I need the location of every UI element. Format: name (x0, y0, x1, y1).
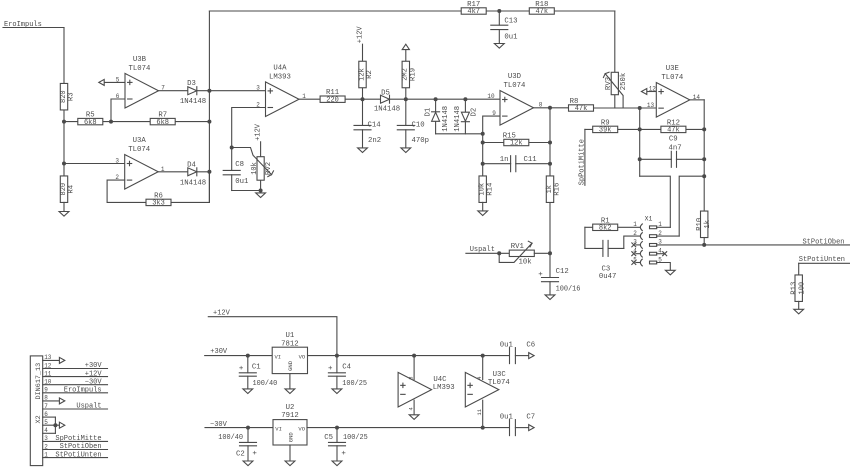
ground below C10 (401, 148, 411, 153)
svg-text:1n: 1n (500, 156, 509, 164)
svg-text:U3E: U3E (666, 65, 679, 73)
svg-text:U4A: U4A (273, 64, 287, 72)
X1 left contact row 2 (640, 233, 642, 240)
op-amp U4A (266, 82, 300, 117)
node R12 right junction (702, 127, 706, 131)
svg-text:0u1: 0u1 (504, 34, 518, 42)
op-amp U4C power (398, 372, 432, 407)
svg-text:1N4148: 1N4148 (454, 106, 462, 132)
svg-text:100/40: 100/40 (253, 380, 278, 388)
svg-text:C1: C1 (252, 363, 261, 371)
svg-text:47k: 47k (575, 105, 588, 113)
X2 pins 4-5-6 bracket (54, 417, 56, 433)
wire D1-D2 bottom (436, 133, 483, 135)
X1 pin 5 bar (650, 261, 657, 264)
U3C power pin 4 (482, 356, 484, 380)
svg-text:5: 5 (44, 419, 48, 426)
X2 pin 6 (43, 416, 56, 418)
ground below RV2 (260, 191, 262, 193)
svg-text:3k3: 3k3 (152, 200, 165, 208)
resistor R18 (529, 8, 554, 14)
svg-text:0u1: 0u1 (500, 413, 514, 421)
svg-text:StPotiOben: StPotiOben (60, 443, 102, 451)
svg-text:U3B: U3B (133, 56, 147, 64)
X2 pin 4 (43, 432, 56, 434)
svg-text:100/25: 100/25 (342, 380, 367, 388)
U3C pin 11 to -rail (482, 400, 484, 427)
node R10 bottom junction (702, 243, 706, 247)
svg-text:LM393: LM393 (433, 384, 455, 392)
X2 pin 2 (43, 449, 108, 451)
junction C11 right (548, 162, 552, 166)
resistor R12 (661, 126, 686, 132)
svg-text:47k: 47k (667, 127, 680, 135)
X1 pin 2 bar (650, 235, 657, 238)
resistor R13 (795, 275, 802, 302)
capacitor C9 (672, 157, 676, 162)
junction R15 right (548, 141, 552, 145)
RV2 wiper (232, 148, 272, 175)
wire U3B pin6 (111, 99, 125, 122)
X1 pin3 lead right / StPotiOben wire (657, 244, 850, 246)
capacitor C4 electrolytic (336, 356, 338, 373)
svg-text:EroImpuls: EroImpuls (64, 387, 102, 395)
svg-text:StPotiUnten: StPotiUnten (55, 451, 101, 459)
svg-text:1N4148: 1N4148 (180, 179, 206, 187)
svg-text:10k: 10k (519, 259, 533, 267)
svg-text:0u1: 0u1 (500, 341, 514, 349)
node D4 output junction (207, 170, 211, 174)
capacitor C10 (405, 99, 407, 125)
node D3 output junction (207, 89, 211, 93)
resistor R14 (479, 176, 486, 203)
ground below R13 (798, 301, 800, 309)
capacitor C3 (585, 247, 603, 249)
svg-text:7: 7 (44, 403, 48, 410)
svg-text:C12: C12 (556, 268, 569, 276)
node U3C power junction (481, 354, 485, 358)
svg-text:250k: 250k (620, 72, 628, 90)
wire output node to X1 pin2 (679, 176, 704, 236)
svg-text:3: 3 (115, 158, 119, 165)
svg-text:8k2: 8k2 (599, 225, 612, 233)
svg-text:+12V: +12V (356, 26, 364, 44)
svg-text:GND: GND (287, 360, 294, 371)
X2 pin 12 (43, 368, 108, 370)
X1 pin4 lead right with x (657, 253, 665, 255)
svg-text:C13: C13 (504, 17, 517, 25)
svg-text:C6: C6 (526, 341, 535, 349)
svg-text:VI: VI (275, 353, 282, 360)
U4C pin 4 to ground (413, 400, 415, 415)
RV1 wiper (499, 243, 532, 262)
ground below C14 (358, 148, 368, 153)
wire U4A output (299, 98, 500, 100)
svg-text:D3: D3 (187, 80, 196, 88)
op-amp U3A (125, 155, 159, 190)
svg-text:C7: C7 (526, 413, 535, 421)
svg-text:10k: 10k (479, 183, 487, 196)
svg-text:1k: 1k (704, 220, 712, 228)
ground below C4 (332, 389, 342, 394)
U1 ground pin (289, 374, 291, 389)
resistor R6 (146, 199, 171, 205)
resistor R3 (60, 83, 67, 110)
svg-text:StPotiUnten: StPotiUnten (799, 256, 845, 264)
node U3E pin13 junction (638, 106, 642, 110)
trimmer RV3 (614, 11, 616, 72)
svg-text:VO: VO (298, 426, 305, 433)
trimmer RV1 (509, 250, 534, 256)
svg-text:1N4148: 1N4148 (180, 98, 206, 106)
wire U3E pin12 stub (647, 91, 657, 93)
svg-text:SpPotiMitte: SpPotiMitte (55, 435, 101, 443)
node R9 right junction (638, 127, 642, 131)
svg-text:100/40: 100/40 (218, 434, 243, 442)
svg-text:+30V: +30V (85, 362, 103, 370)
diode D2 (464, 99, 466, 134)
U2 ground pin (289, 445, 291, 461)
svg-text:4k7: 4k7 (467, 8, 480, 16)
svg-text:U2: U2 (286, 404, 295, 412)
wire top line (209, 10, 614, 12)
trimmer RV2 (260, 142, 262, 157)
svg-text:10k: 10k (251, 162, 259, 175)
node X2 pin5 junction (53, 423, 57, 427)
ground below X1 pin5 (665, 270, 675, 275)
svg-text:6: 6 (44, 411, 48, 418)
node C2 junction (246, 426, 250, 430)
regulator U1 7812 (272, 347, 307, 373)
svg-text:C8: C8 (235, 161, 244, 169)
node R19/C10 junction (404, 97, 408, 101)
X2 pin 7 (43, 408, 108, 410)
svg-text:SpPotiMitte: SpPotiMitte (578, 139, 586, 185)
capacitor C2 electrolytic (247, 428, 249, 443)
svg-text:100: 100 (798, 282, 806, 295)
X2 pin 11 (43, 376, 108, 378)
svg-text:820: 820 (60, 90, 68, 103)
svg-text:8: 8 (44, 395, 48, 402)
node C9 left junction (638, 157, 642, 161)
arrow at U3B pin5 (99, 79, 104, 85)
X2 pin 13 (43, 359, 59, 361)
svg-text:+: + (252, 450, 257, 458)
X1 left contact row 1 (640, 224, 642, 231)
svg-text:10: 10 (44, 379, 52, 386)
wire R15 net (483, 142, 550, 144)
ground below C1 (243, 389, 253, 394)
X2 pin 3 (43, 440, 108, 442)
node RV2 ground junction (259, 189, 263, 193)
resistor R7 (150, 118, 175, 124)
svg-text:12: 12 (649, 86, 657, 93)
X1 pin5 lead right to ground (657, 263, 671, 271)
svg-text:R2: R2 (366, 70, 374, 79)
arrow at C7 (529, 425, 534, 431)
svg-text:2: 2 (256, 102, 260, 109)
resistor R16 (546, 176, 553, 203)
svg-text:X2: X2 (35, 415, 43, 423)
wire U4A pin3 (209, 90, 265, 92)
node U3D output junction (548, 106, 552, 110)
svg-text:9: 9 (492, 110, 496, 117)
svg-text:5: 5 (116, 76, 120, 83)
svg-text:C5: C5 (324, 434, 333, 442)
node RV1 right junction (548, 251, 552, 255)
svg-text:TL074: TL074 (128, 146, 151, 154)
node junction R3/R5 (62, 120, 66, 124)
svg-text:R16: R16 (554, 183, 562, 196)
svg-text:U4C: U4C (433, 376, 447, 384)
node output-R10 junction (702, 174, 706, 178)
svg-text:2: 2 (44, 443, 48, 450)
wire StPotiUnten vertical (798, 263, 800, 275)
svg-text:R19: R19 (409, 68, 417, 81)
wire U3B output (159, 90, 210, 92)
X1 pin 1 bar (650, 226, 657, 229)
svg-text:LM393: LM393 (269, 73, 291, 81)
wire C6 output stub (515, 355, 528, 357)
svg-text:U3D: U3D (508, 73, 522, 81)
diode D4 (188, 168, 197, 176)
ground below C12 (545, 295, 555, 300)
wire vertical main left bus (208, 11, 210, 202)
junction R15 left (481, 141, 485, 145)
X1 pin2 lead right (657, 235, 680, 237)
svg-text:4: 4 (44, 427, 48, 434)
capacitor C1 electrolytic (247, 356, 249, 373)
svg-text:12k: 12k (510, 140, 523, 148)
svg-text:8: 8 (408, 376, 415, 379)
resistor R19 (405, 50, 407, 99)
svg-text:X1: X1 (645, 215, 653, 222)
svg-text:1N4148: 1N4148 (442, 106, 450, 132)
svg-text:820: 820 (60, 183, 68, 196)
svg-text:220: 220 (326, 96, 339, 104)
wire -30V input (205, 427, 273, 429)
svg-text:+: + (328, 365, 333, 373)
svg-text:Uspalt: Uspalt (470, 246, 495, 254)
wire R8 net (568, 107, 656, 109)
svg-text:D2: D2 (471, 108, 479, 117)
svg-text:2: 2 (633, 230, 637, 237)
node C13 junction (497, 9, 501, 13)
node C9 right junction (702, 157, 706, 161)
wire R10 bottom (703, 238, 705, 245)
svg-text:100/16: 100/16 (556, 286, 581, 294)
svg-text:C11: C11 (524, 156, 538, 164)
svg-text:3: 3 (44, 435, 48, 442)
node D2 bottom junction (481, 132, 485, 136)
svg-text:U3A: U3A (133, 137, 147, 145)
X1 pin1 lead right (657, 226, 671, 228)
X2 pin 5 (43, 424, 59, 426)
resistor R1 (585, 226, 640, 228)
ground below U2 (285, 461, 295, 466)
X1 pin 3 bar (650, 244, 657, 247)
X2 pin 8 (43, 400, 59, 402)
svg-text:−30V: −30V (85, 378, 103, 386)
node U3C pin11 junction (481, 426, 485, 430)
ground below U1 (285, 389, 295, 394)
svg-text:470p: 470p (412, 137, 430, 145)
svg-text:R4: R4 (68, 184, 76, 193)
junction C11 left (481, 162, 485, 166)
wire U4A pin2 (232, 108, 266, 148)
svg-text:+12V: +12V (85, 370, 103, 378)
resistor R5 (78, 118, 103, 124)
wire pin13 node vertical (639, 108, 641, 176)
wire C9 net (640, 158, 705, 160)
wire U3E feedback vertical (703, 100, 705, 211)
svg-text:Uspalt: Uspalt (76, 403, 101, 411)
ground below C2 (243, 461, 253, 466)
svg-text:U3C: U3C (493, 371, 507, 379)
svg-text:12k: 12k (358, 68, 366, 81)
X1 left contact row 4 (640, 250, 642, 257)
svg-text:C4: C4 (342, 363, 351, 371)
svg-text:0u47: 0u47 (599, 273, 617, 281)
svg-text:1k: 1k (546, 185, 554, 193)
wire +30V input (205, 355, 273, 357)
svg-text:1: 1 (44, 451, 48, 458)
capacitor C13 (498, 11, 500, 25)
node C4 junction (335, 354, 339, 358)
capacitor C11 (511, 161, 515, 166)
capacitor C8 (231, 148, 233, 171)
node Uspalt junction (497, 251, 501, 255)
svg-text:+30V: +30V (210, 348, 228, 356)
svg-text:C10: C10 (412, 122, 425, 130)
wire U3E output (690, 99, 704, 101)
op-amp U3E (656, 83, 690, 118)
ground below R4 (63, 202, 65, 211)
capacitor C5 electrolytic (336, 428, 338, 443)
wire U3A output (158, 171, 209, 173)
svg-text:U1: U1 (286, 332, 295, 340)
wire U3D pin9 (483, 116, 500, 176)
svg-text:2M2: 2M2 (402, 68, 410, 81)
arrow at C6 (529, 353, 534, 359)
svg-text:7812: 7812 (281, 340, 299, 348)
U4C power pin 8 (413, 356, 415, 380)
svg-text:12: 12 (44, 362, 52, 369)
svg-text:2n2: 2n2 (368, 137, 381, 145)
svg-text:47k: 47k (535, 8, 548, 16)
node U4C power junction (412, 354, 416, 358)
node junction R4/U3A (62, 162, 66, 166)
op-amp U3B (125, 73, 159, 108)
svg-text:7912: 7912 (281, 412, 299, 420)
node C1 junction (246, 354, 250, 358)
svg-text:3: 3 (256, 85, 260, 92)
capacitor C12 electrolytic (549, 253, 551, 277)
node D2 top (463, 97, 467, 101)
wire C11 net (483, 163, 550, 165)
svg-text:0u1: 0u1 (235, 178, 249, 186)
svg-text:13: 13 (44, 354, 52, 361)
svg-text:TL074: TL074 (129, 65, 152, 73)
svg-text:9: 9 (44, 387, 48, 394)
ground below U4C (409, 415, 419, 420)
resistor R4 (60, 176, 67, 203)
svg-text:VI: VI (275, 426, 282, 433)
svg-text:6k8: 6k8 (84, 119, 97, 127)
svg-text:4n7: 4n7 (669, 145, 682, 153)
svg-text:TL074: TL074 (488, 379, 511, 387)
ground below C13 (494, 44, 504, 49)
capacitor C6 (510, 353, 515, 358)
X1 pin 4 bar (650, 252, 657, 255)
resistor R17 (461, 8, 486, 14)
svg-text:10: 10 (487, 93, 495, 100)
svg-text:TL074: TL074 (661, 74, 684, 82)
X2 pin 1 (43, 457, 108, 459)
capacitor C7 (510, 425, 515, 430)
X2 pin 9 (43, 392, 108, 394)
svg-text:6: 6 (116, 93, 120, 100)
X2 pin 10 (43, 384, 108, 386)
wire R9-R12 net (585, 128, 704, 130)
svg-text:1: 1 (633, 221, 637, 228)
svg-text:100/25: 100/25 (343, 434, 368, 442)
op-amp U3D (500, 91, 534, 126)
X1 left contact row 5 (640, 259, 642, 266)
wire U3D output (534, 107, 569, 109)
node D1 top (434, 97, 438, 101)
regulator U2 7912 (273, 420, 307, 445)
ground below R14 (482, 202, 484, 211)
svg-text:R10: R10 (696, 218, 704, 231)
resistor R11 (320, 96, 345, 102)
svg-text:+: + (538, 271, 543, 279)
svg-text:C9: C9 (669, 136, 678, 144)
svg-text:+: + (341, 450, 346, 458)
resistor R15 (504, 139, 529, 145)
svg-text:VO: VO (299, 353, 306, 360)
svg-text:D1: D1 (425, 107, 433, 116)
svg-text:DIN617_13: DIN617_13 (35, 363, 43, 400)
node R2/C14 junction (361, 97, 365, 101)
arrow at U3E pin12 (641, 89, 646, 95)
svg-text:R3: R3 (68, 92, 76, 101)
wire EroImpuls vertical (63, 28, 65, 203)
junction R7 right (207, 120, 211, 124)
resistor R2 (362, 44, 364, 99)
capacitor C14 (362, 99, 364, 125)
resistor R10 (701, 211, 708, 238)
svg-text:GND: GND (287, 432, 294, 443)
wire R5-R7 line (64, 121, 209, 123)
wire +12V branch (208, 317, 337, 356)
svg-text:39k: 39k (599, 127, 612, 135)
wire C8 bottom to RV2 bottom (232, 190, 261, 192)
svg-text:11: 11 (476, 408, 483, 415)
diode D1 (435, 99, 437, 134)
svg-text:+12V: +12V (255, 123, 263, 141)
svg-text:StPotiOben: StPotiOben (802, 238, 844, 246)
svg-text:R14: R14 (486, 182, 494, 196)
svg-text:11: 11 (44, 370, 52, 377)
svg-text:1N4148: 1N4148 (374, 106, 400, 114)
resistor R8 (569, 105, 594, 111)
ground below C5 (332, 461, 342, 466)
wire +12V rail (308, 355, 510, 357)
RV3 wiper (605, 74, 623, 108)
wire pin13 node to X1 pin1 (640, 176, 671, 227)
wire U3A pin3 (64, 163, 125, 165)
